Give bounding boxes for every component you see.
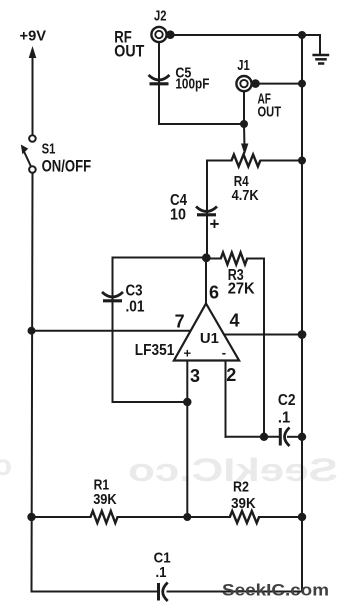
svg-text:.1: .1 — [278, 409, 290, 426]
svg-text:OUT: OUT — [258, 104, 282, 121]
svg-text:6: 6 — [209, 283, 219, 303]
svg-text:7: 7 — [175, 312, 185, 332]
svg-text:10: 10 — [170, 207, 186, 224]
svg-text:SeekIC.com: SeekIC.com — [222, 581, 329, 600]
svg-text:OUT: OUT — [114, 42, 145, 61]
svg-text:39K: 39K — [231, 495, 256, 512]
svg-text:+: + — [184, 346, 192, 361]
svg-text:4.7K: 4.7K — [232, 187, 259, 204]
svg-text:.1: .1 — [156, 564, 167, 581]
svg-text:J1: J1 — [237, 57, 249, 74]
svg-text:LF351: LF351 — [135, 342, 175, 359]
svg-text:2: 2 — [226, 365, 236, 385]
svg-text:+: + — [210, 215, 220, 234]
svg-text:C2: C2 — [278, 392, 296, 409]
svg-text:C3: C3 — [126, 283, 143, 300]
svg-text:4: 4 — [230, 310, 240, 330]
svg-text:+9V: +9V — [20, 28, 47, 45]
svg-text:U1: U1 — [200, 330, 219, 347]
svg-text:39K: 39K — [93, 491, 117, 508]
svg-text:ON/OFF: ON/OFF — [42, 157, 92, 176]
svg-text:J2: J2 — [154, 8, 167, 25]
svg-text:.01: .01 — [126, 299, 145, 316]
svg-text:-: - — [222, 345, 226, 360]
svg-text:100pF: 100pF — [175, 76, 209, 93]
svg-text:S1: S1 — [42, 141, 56, 158]
svg-text:o.: o. — [0, 449, 12, 482]
svg-text:R2: R2 — [233, 479, 249, 496]
svg-text:3: 3 — [190, 366, 200, 386]
svg-text:27K: 27K — [228, 281, 255, 298]
